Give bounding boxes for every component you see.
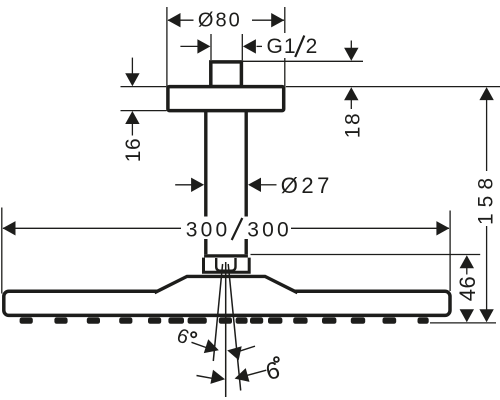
wire dimension line 300/300 left with arrowhead	[3, 227, 181, 229]
label G1/2 white halo	[262, 33, 322, 58]
flange ceiling plate Ø80	[168, 87, 284, 111]
wire ceiling line left segment	[121, 86, 167, 88]
wire dimension 158 line lower segment	[486, 226, 488, 310]
svg-text:46: 46	[455, 276, 480, 301]
svg-text:18: 18	[341, 112, 364, 138]
wire reference line 46 top	[251, 254, 481, 256]
text 300/300 white halo	[183, 217, 289, 240]
node dimension extension line Ø80 left	[166, 7, 168, 86]
svg-text:6: 6	[263, 356, 283, 386]
label slash of G1/2	[295, 36, 304, 58]
wire connector top level line right	[243, 60, 364, 62]
node dimension extension 300/300 left	[1, 208, 3, 294]
svg-text:6: 6	[174, 325, 192, 349]
svg-text:G1: G1	[267, 35, 297, 58]
wire dimension 46 top arrow	[460, 255, 474, 268]
svg-text:16: 16	[122, 138, 145, 162]
wire dimension line 300/300 right with arrowhead	[291, 227, 449, 229]
wire ceiling line right segment	[286, 86, 500, 88]
node dimension extension line G1/2 left	[210, 34, 212, 60]
angle dimension upper 6deg leader and arrows	[192, 339, 256, 360]
label 158 rotated with white halo	[478, 174, 497, 224]
wire reference line spray face right	[430, 322, 496, 324]
wire dimension arrow G1/2 left	[180, 45, 198, 47]
node dimension extension line G1/2 right	[241, 34, 243, 60]
ball joint inner	[216, 258, 235, 271]
shoulder trapezoid fill	[156, 276, 296, 293]
wire dimension 158 bottom arrow	[479, 309, 493, 322]
node dimension extension line Ø80 right	[284, 7, 286, 86]
svg-text:300: 300	[247, 219, 292, 242]
svg-text:158: 158	[475, 172, 498, 225]
wire dimension 18 top arrow	[350, 41, 352, 49]
connector square G1/2 thread	[211, 62, 242, 87]
wire dimension 46 bottom arrow	[460, 309, 474, 322]
spray angled line right 6 deg	[228, 264, 241, 391]
wire dimension 16 top arrow	[131, 58, 133, 75]
node dimension extension 300/300 right	[449, 211, 451, 292]
spray centre axis line	[225, 262, 227, 397]
wire dimension line Ø80 left with arrowhead	[168, 19, 194, 21]
svg-text:Ø80: Ø80	[198, 10, 242, 32]
nozzle dashes on spray face	[20, 317, 429, 323]
pipe shower arm Ø27	[206, 111, 246, 255]
wire dimension 16 bottom arrow	[125, 111, 139, 124]
nut top cap	[204, 254, 248, 257]
shoulder trapezoid outline	[155, 276, 298, 292]
wire flange bottom extension left	[121, 110, 167, 112]
wire dimension line Ø80 right with arrowhead	[252, 19, 284, 21]
svg-text:2: 2	[306, 35, 320, 58]
spray angled line left 6 deg	[213, 264, 222, 361]
wire dimension arrow G1/2 right	[257, 45, 263, 47]
wire dimension 18 bottom arrow	[344, 87, 358, 100]
wire dimension line Ø27 right with arrowhead	[261, 184, 277, 186]
white cover over head top line below shoulder	[159, 289, 293, 294]
svg-text:Ø27: Ø27	[281, 173, 333, 198]
wire dimension line Ø27 left with arrowhead	[175, 184, 192, 186]
angle dimension lower 6deg leader and arrows	[197, 368, 267, 384]
shower head body 300x300	[4, 291, 450, 315]
wire dimension 158 top arrow	[479, 87, 493, 100]
nut body	[204, 258, 250, 273]
label slash of 300/300	[232, 218, 243, 240]
svg-text:300: 300	[186, 219, 231, 242]
